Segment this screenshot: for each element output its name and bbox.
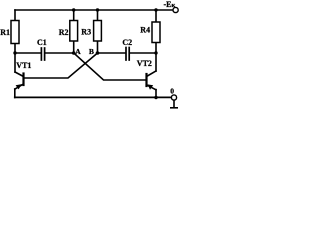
- svg-text:C1: C1: [37, 38, 47, 47]
- svg-text:B: B: [89, 47, 94, 56]
- svg-text:R3: R3: [81, 28, 91, 37]
- svg-text:A: A: [75, 47, 81, 56]
- svg-text:R1: R1: [0, 28, 10, 37]
- svg-text:VT2: VT2: [137, 59, 152, 68]
- svg-text:0: 0: [170, 86, 174, 95]
- svg-text:R2: R2: [59, 28, 69, 37]
- svg-text:VT1: VT1: [16, 61, 31, 70]
- svg-text:C2: C2: [122, 38, 132, 47]
- svg-text:-Ек: -Ек: [164, 0, 176, 9]
- svg-text:R4: R4: [140, 26, 150, 35]
